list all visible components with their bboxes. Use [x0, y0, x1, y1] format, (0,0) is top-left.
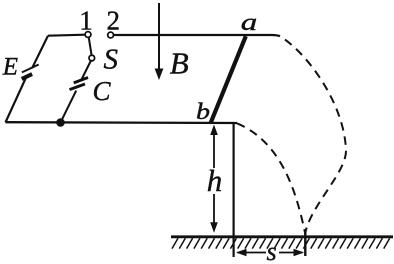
- node junction dot: [56, 118, 65, 127]
- wire: top rail right segment: [114, 35, 280, 36]
- switch S pivot: [89, 55, 95, 61]
- trajectory from b (dashed): [237, 123, 305, 233]
- wire: top rail left segment: [48, 35, 85, 36]
- svg-text:h: h: [207, 163, 223, 198]
- ground hatching: [172, 238, 390, 248]
- svg-text:B: B: [170, 46, 189, 81]
- capacitor C top plate: [74, 78, 88, 83]
- wire: left branch upper (to battery): [32, 36, 48, 69]
- svg-text:C: C: [93, 76, 112, 106]
- trajectory from a (dashed): [280, 36, 346, 233]
- switch contact 2: [108, 32, 114, 38]
- battery E short plate: [22, 74, 32, 79]
- svg-text:s: s: [267, 237, 277, 264]
- ground line: [171, 235, 393, 238]
- capacitor C bottom plate: [70, 84, 86, 90]
- svg-text:E: E: [2, 54, 18, 81]
- svg-text:1: 1: [79, 5, 93, 35]
- wire: capacitor branch upper: [82, 61, 92, 80]
- dimension s arrow: [236, 249, 304, 257]
- battery E long plate: [22, 65, 39, 73]
- wire: capacitor branch lower: [61, 91, 77, 123]
- table edge vertical line: [233, 122, 235, 257]
- rod ab: [211, 36, 246, 123]
- field B arrow: [155, 3, 164, 80]
- dimension h arrow: [210, 125, 218, 233]
- wire: left branch lower (battery to corner): [6, 78, 27, 123]
- switch S lever: [89, 37, 92, 55]
- svg-text:2: 2: [106, 5, 120, 35]
- wire: bottom rail: [6, 121, 238, 124]
- svg-text:a: a: [241, 10, 257, 36]
- svg-text:b: b: [196, 99, 210, 124]
- svg-text:S: S: [104, 44, 119, 76]
- landing point tick: [304, 231, 306, 256]
- switch contact 1: [85, 32, 91, 38]
